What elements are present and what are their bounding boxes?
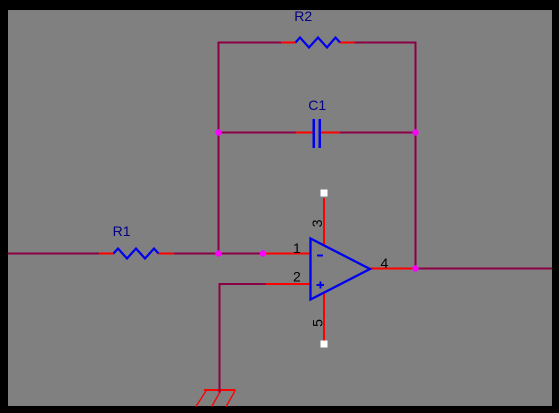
resistor R1 lead left	[99, 253, 114, 255]
op-amp U1 body	[311, 239, 371, 300]
ground	[196, 390, 236, 407]
resistor R2	[296, 38, 341, 48]
wire input net to R1	[8, 253, 99, 255]
wire R2 to top right corner	[355, 42, 417, 44]
wire node A to C1	[218, 132, 297, 134]
wire C1 to right vertical	[340, 132, 417, 134]
svg-text:4: 4	[381, 255, 389, 271]
wire top left to R2	[218, 42, 282, 44]
svg-text:C1: C1	[308, 97, 326, 113]
op-amp pin 5 lead	[323, 293, 325, 342]
wire pin2 to ground vertical	[219, 283, 221, 390]
wire output net	[415, 268, 553, 270]
svg-text:5: 5	[310, 319, 326, 327]
resistor R2 lead right	[340, 42, 355, 44]
svg-text:2: 2	[293, 269, 301, 285]
op-amp minus symbol	[317, 255, 323, 257]
op-amp plus symbol	[317, 281, 324, 288]
capacitor C1 lead left	[296, 132, 313, 134]
svg-text:R2: R2	[294, 8, 312, 24]
svg-text:1: 1	[293, 240, 301, 256]
wire right vertical feedback	[415, 42, 417, 270]
resistor R2 lead left	[281, 42, 296, 44]
wire left vertical feedback	[218, 42, 220, 255]
junction pin1 wire	[260, 250, 266, 256]
junction node A (feedback/input)	[215, 250, 221, 256]
junction C1 right	[412, 129, 418, 135]
capacitor C1 lead right	[321, 132, 341, 134]
capacitor C1 plate right	[318, 119, 321, 148]
wire pin2 horizontal	[219, 283, 267, 285]
terminal pin5 (white square)	[321, 341, 328, 348]
wire node A to pin1 junction	[218, 253, 264, 255]
terminal pin3 (white square)	[321, 190, 328, 197]
junction C1 left	[215, 129, 221, 135]
op-amp pin 4 lead	[370, 268, 416, 270]
wire R1 to node A	[174, 253, 220, 255]
wire ground stub over bar	[219, 388, 221, 393]
resistor R1 lead right	[159, 253, 175, 255]
op-amp pin 3 lead	[323, 198, 325, 246]
junction output node	[412, 265, 418, 271]
svg-text:R1: R1	[113, 223, 131, 239]
op-amp pin 1 lead	[263, 253, 311, 255]
svg-text:3: 3	[309, 219, 325, 227]
capacitor C1 plate left	[312, 119, 315, 148]
resistor R1	[114, 249, 159, 259]
op-amp pin 2 lead	[266, 283, 311, 285]
